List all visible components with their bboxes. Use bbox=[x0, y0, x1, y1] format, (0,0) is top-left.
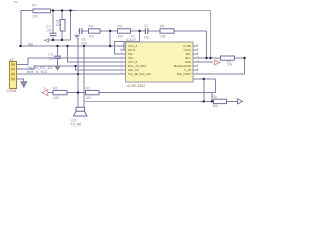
svg-text:10k: 10k bbox=[160, 34, 166, 38]
svg-text:10k: 10k bbox=[213, 104, 219, 108]
svg-text:R7: R7 bbox=[86, 86, 90, 90]
svg-text:Trig_SE_SCL_I2C: Trig_SE_SCL_I2C bbox=[128, 72, 151, 76]
svg-text:10k: 10k bbox=[89, 34, 95, 38]
svg-text:CON4: CON4 bbox=[7, 89, 17, 93]
svg-text:Bme_Ts_SDA: Bme_Ts_SDA bbox=[27, 70, 48, 74]
svg-text:100: 100 bbox=[144, 36, 150, 40]
svg-text:X2: X2 bbox=[10, 58, 14, 62]
svg-text:100: 100 bbox=[46, 28, 52, 32]
svg-text:5V: 5V bbox=[14, 0, 18, 4]
svg-text:10k: 10k bbox=[118, 34, 124, 38]
svg-text:ACHS-4452: ACHS-4452 bbox=[127, 84, 145, 88]
svg-text:R1: R1 bbox=[32, 4, 36, 8]
svg-text:Vcc: Vcc bbox=[28, 42, 34, 46]
svg-text:100: 100 bbox=[53, 96, 59, 100]
svg-text:IC1: IC1 bbox=[126, 38, 131, 42]
svg-text:C4: C4 bbox=[144, 24, 148, 28]
svg-text:R3: R3 bbox=[89, 25, 93, 29]
svg-text:R6: R6 bbox=[53, 86, 57, 90]
svg-text:R4: R4 bbox=[118, 25, 122, 29]
svg-text:R5: R5 bbox=[160, 25, 164, 29]
svg-text:100: 100 bbox=[131, 37, 136, 41]
svg-text:100: 100 bbox=[86, 96, 92, 100]
svg-text:100: 100 bbox=[32, 14, 38, 18]
svg-text:5V: 5V bbox=[43, 87, 47, 91]
svg-text:TS_RB: TS_RB bbox=[71, 123, 83, 127]
svg-text:R8: R8 bbox=[213, 95, 217, 99]
svg-text:40K_CGBT: 40K_CGBT bbox=[177, 72, 192, 76]
svg-text:10k: 10k bbox=[227, 63, 233, 67]
svg-text:100: 100 bbox=[48, 56, 54, 60]
svg-text:100: 100 bbox=[81, 41, 87, 45]
svg-text:100: 100 bbox=[56, 23, 62, 27]
